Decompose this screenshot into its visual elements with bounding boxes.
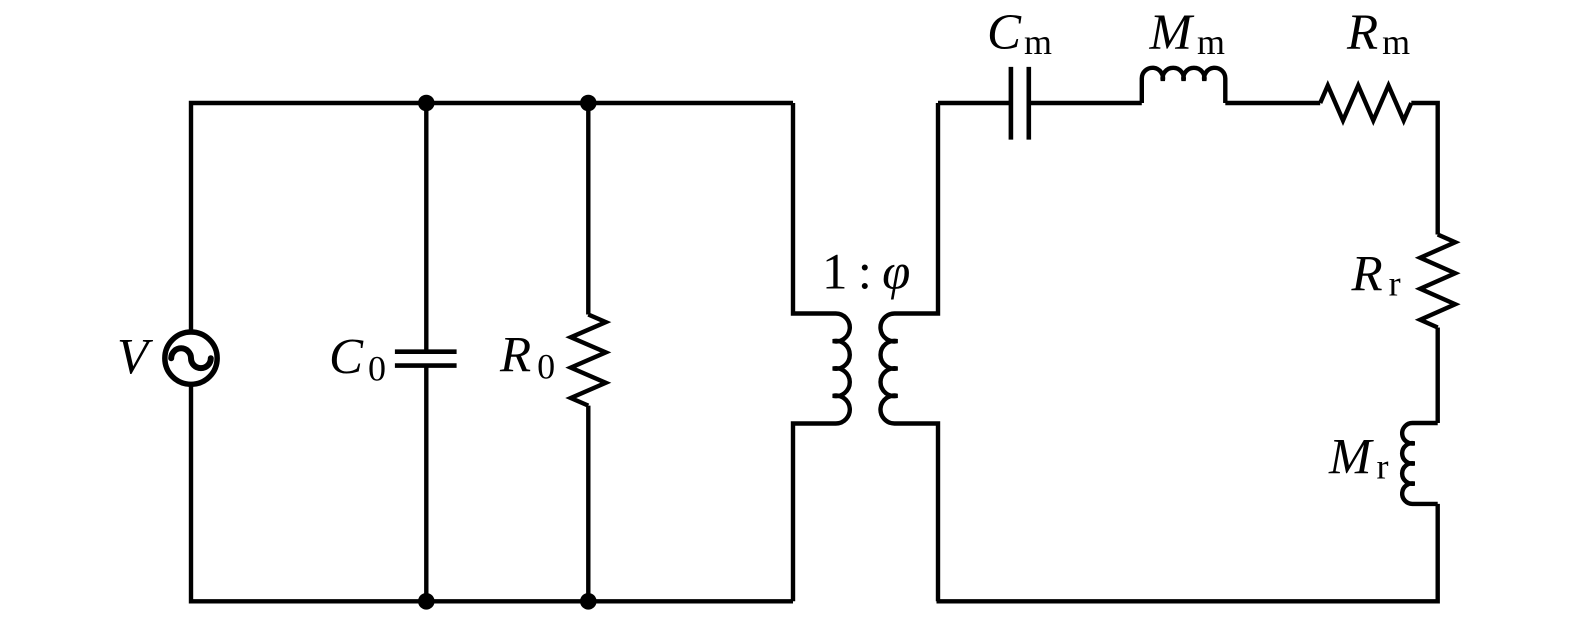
resistor Rr [1420, 235, 1455, 328]
wire Mm to Rm [1225, 101, 1320, 105]
wire Rr to Mr [1435, 328, 1439, 424]
wire top-left rail [191, 103, 793, 332]
svg-text:V: V [117, 330, 154, 386]
resistor Rm [1320, 86, 1411, 121]
node junction dot bottom R0 [580, 593, 597, 610]
wire R0 branch bottom [586, 406, 590, 602]
capacitor C0 [395, 352, 457, 366]
node junction dot bottom C0 [418, 593, 435, 610]
svg-text:Cm: Cm [987, 5, 1052, 62]
node junction dot top R0 [580, 95, 597, 112]
wire R0 branch top [586, 103, 590, 315]
svg-text:Mm: Mm [1149, 5, 1226, 62]
wire top-right to Cm [938, 101, 1011, 105]
svg-text:1 : φ: 1 : φ [822, 245, 910, 301]
voltage source V [165, 332, 217, 384]
transformer secondary winding (right) [881, 103, 938, 601]
inductor Mm [1142, 68, 1226, 103]
resistor R0 [571, 315, 606, 406]
node junction dot top C0 [418, 95, 435, 112]
capacitor Cm [1011, 67, 1029, 140]
svg-text:Rm: Rm [1346, 5, 1410, 62]
svg-text:Rr: Rr [1351, 246, 1401, 303]
wire C0 branch bottom [424, 365, 428, 601]
svg-text:Mr: Mr [1328, 430, 1388, 487]
svg-text:C0: C0 [329, 330, 386, 389]
wire Rm to right corner and down to Rr [1411, 103, 1437, 235]
svg-text:R0: R0 [499, 328, 555, 387]
transformer primary winding (left) [793, 103, 850, 601]
inductor Mr [1402, 423, 1438, 504]
wire C0 branch top [424, 103, 428, 352]
wire Mr down and bottom-right rail [937, 504, 1438, 601]
wire bottom-left rail [191, 385, 793, 602]
wire Cm to Mm [1029, 101, 1142, 105]
